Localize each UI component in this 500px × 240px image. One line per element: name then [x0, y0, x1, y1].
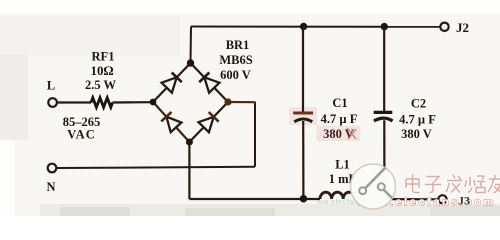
wire bridge top lead [190, 27, 193, 64]
svg-text:L: L [47, 79, 55, 93]
svg-text:J2: J2 [456, 20, 469, 35]
wire L to resistor [58, 101, 92, 103]
wire bridge right to riser [228, 101, 256, 103]
terminal N [48, 164, 57, 173]
node bridge right [224, 98, 231, 105]
svg-text:VAC: VAC [67, 128, 95, 142]
svg-text:BR1: BR1 [226, 38, 250, 52]
wire bridge bottom lead [188, 142, 190, 199]
node bridge top [187, 59, 194, 66]
svg-text:380 V: 380 V [401, 127, 432, 141]
resistor RF1 [91, 98, 113, 108]
svg-text:10Ω: 10Ω [91, 63, 114, 78]
svg-text:4.7 µ F: 4.7 µ F [321, 112, 358, 126]
diode BR1 upper-left [153, 63, 191, 102]
node bridge left [150, 99, 157, 106]
svg-text:2.5 W: 2.5 W [85, 78, 117, 92]
svg-text:600 V: 600 V [220, 68, 251, 82]
watermark logo arm [364, 168, 392, 199]
diode BR1 lower-right [189, 102, 228, 142]
watermark CJK char zi [425, 177, 441, 193]
node top rail C2 [381, 23, 388, 30]
wire bottom rail left [189, 198, 320, 200]
wire bottom rail right [355, 198, 439, 201]
node C2 bottom junction [382, 196, 388, 202]
watermark pink box [317, 126, 361, 142]
node bridge bottom [186, 139, 193, 146]
watermark stroke over C1 voltage [347, 128, 356, 139]
capacitor C1 [293, 27, 313, 197]
wire N riser [254, 102, 256, 167]
diode BR1 lower-left [153, 102, 189, 142]
wire N run [57, 167, 256, 168]
watermark CJK char shao [465, 176, 485, 193]
terminal J2 [440, 23, 448, 31]
capacitor C2 [374, 27, 393, 197]
svg-text:J3: J3 [458, 193, 470, 207]
svg-text:4.7 µ F: 4.7 µ F [399, 112, 436, 126]
svg-text:C1: C1 [332, 96, 347, 110]
terminal L [48, 98, 57, 107]
svg-text:C2: C2 [411, 96, 426, 110]
wire top rail [191, 26, 440, 28]
node top rail C1 [300, 23, 307, 30]
watermark logo circle [351, 164, 396, 209]
svg-text:MB6S: MB6S [219, 53, 252, 67]
terminal J3 [438, 195, 446, 203]
svg-text:L1: L1 [335, 157, 350, 171]
wire resistor to bridge [113, 101, 151, 104]
svg-text:380 V: 380 V [323, 127, 354, 141]
watermark CJK char dian [406, 175, 420, 193]
svg-text:RF1: RF1 [92, 50, 115, 64]
watermark logo hubs [359, 187, 366, 194]
inductor L1 [320, 192, 355, 199]
watermark CJK char fa [446, 175, 462, 193]
watermark CJK char you [488, 175, 500, 193]
svg-text:N: N [46, 180, 55, 194]
diode BR1 upper-right [191, 63, 229, 102]
node C1 bottom junction [300, 195, 308, 203]
